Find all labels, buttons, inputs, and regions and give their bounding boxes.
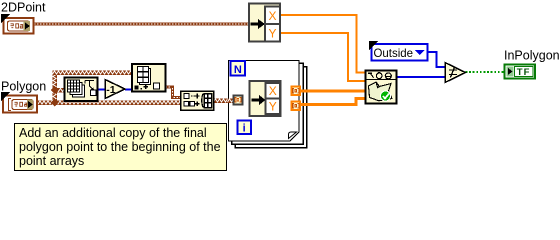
svg-text:polygon point to the beginning: polygon point to the beginning of the <box>19 140 221 154</box>
svg-text:2DPoint: 2DPoint <box>1 1 46 15</box>
svg-text:X: X <box>268 9 276 23</box>
svg-text:InPolygon: InPolygon <box>504 49 560 63</box>
svg-text:Y: Y <box>268 26 276 40</box>
svg-text:Add an additional copy of the: Add an additional copy of the final <box>19 126 207 140</box>
svg-text:point arrays: point arrays <box>19 154 84 168</box>
svg-text:Y: Y <box>269 100 277 114</box>
svg-text:-1: -1 <box>106 84 115 96</box>
svg-text:Outside: Outside <box>374 46 414 60</box>
svg-text:X: X <box>269 84 277 98</box>
svg-text:N: N <box>234 64 242 76</box>
svg-text:TF: TF <box>517 67 531 78</box>
svg-text:i: i <box>243 123 246 135</box>
svg-text:Polygon: Polygon <box>1 80 46 94</box>
